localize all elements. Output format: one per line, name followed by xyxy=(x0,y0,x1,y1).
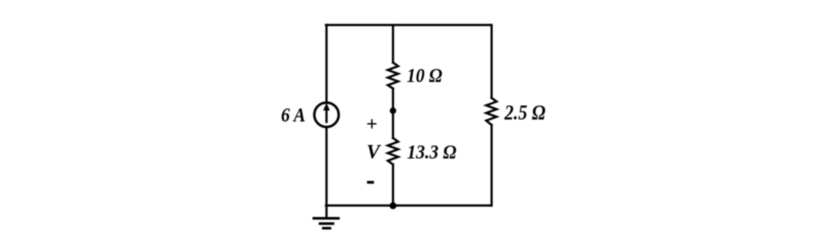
svg-text:6 A: 6 A xyxy=(281,105,306,127)
svg-text:10 Ω: 10 Ω xyxy=(407,65,443,87)
svg-text:+: + xyxy=(366,114,377,136)
svg-text:V: V xyxy=(367,141,382,163)
svg-text:13.3 Ω: 13.3 Ω xyxy=(407,142,457,164)
svg-text:2.5 Ω: 2.5 Ω xyxy=(504,101,546,125)
